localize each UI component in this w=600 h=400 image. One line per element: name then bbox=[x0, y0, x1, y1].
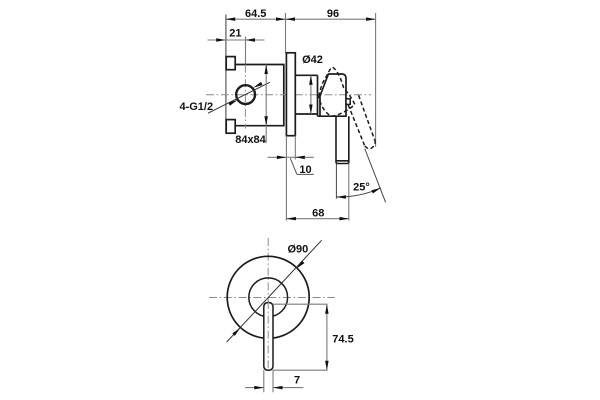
svg-text:10: 10 bbox=[299, 164, 311, 176]
dashed head (rotated) bbox=[319, 67, 355, 116]
inner circle bbox=[249, 278, 288, 317]
dashed lever (open 25°) bbox=[348, 105, 365, 146]
handle lever (down position) bbox=[336, 116, 349, 163]
extension line mid (x=285.5) bbox=[285, 13, 287, 53]
extension line right (x=375.6) bbox=[375, 13, 377, 147]
svg-text:4-G1/2: 4-G1/2 bbox=[179, 101, 213, 113]
extension line lever right bbox=[348, 164, 350, 221]
svg-text:21: 21 bbox=[229, 27, 241, 39]
dimension 21 bbox=[208, 39, 226, 41]
svg-text:96: 96 bbox=[327, 8, 339, 20]
svg-text:74.5: 74.5 bbox=[332, 334, 353, 346]
vertical centerline port bbox=[244, 65, 246, 129]
dimension 96 bbox=[286, 18, 376, 20]
label 4-G1/2 with leader bbox=[208, 82, 270, 113]
svg-text:Ø42: Ø42 bbox=[302, 54, 323, 66]
dimension 7 bbox=[263, 370, 265, 392]
label Ø90 with leader bbox=[227, 240, 322, 342]
svg-text:25°: 25° bbox=[353, 181, 370, 193]
wall flange plate bbox=[286, 53, 295, 136]
dimension 64.5 bbox=[226, 18, 286, 20]
horizontal centerline top view bbox=[206, 94, 371, 96]
angle 25° bbox=[335, 164, 337, 199]
vertical centerline front view bbox=[267, 238, 269, 368]
dimension 68 bbox=[286, 218, 349, 220]
dimension 74.5 bbox=[273, 303, 328, 305]
extension line left (x=225.9) bbox=[225, 15, 227, 134]
body square 84x84 bbox=[235, 65, 284, 126]
dimension 10 bbox=[268, 156, 287, 158]
svg-text:Ø90: Ø90 bbox=[288, 244, 309, 256]
set screw boss bbox=[346, 99, 350, 105]
extension line flange right bbox=[294, 136, 296, 160]
extension line 21 (x=245.5) bbox=[245, 37, 247, 65]
svg-text:7: 7 bbox=[294, 374, 300, 386]
bottom connection tab bbox=[226, 120, 235, 134]
svg-text:68: 68 bbox=[312, 207, 324, 219]
dimension 84x84 bbox=[265, 65, 267, 144]
handle head bbox=[318, 74, 347, 116]
escutcheon circle Ø90 bbox=[227, 256, 309, 338]
G1/2 port circle bbox=[236, 85, 255, 104]
svg-text:64.5: 64.5 bbox=[245, 8, 266, 20]
horizontal centerline front view bbox=[209, 297, 335, 299]
dimension Ø42 bbox=[310, 75, 312, 114]
cartridge cylinder bbox=[295, 74, 317, 76]
svg-text:84x84: 84x84 bbox=[235, 134, 266, 146]
top connection tab bbox=[226, 57, 235, 70]
vertical centerline through lever bbox=[267, 301, 269, 368]
lever front view bbox=[264, 303, 273, 371]
extension line flange left bbox=[285, 136, 287, 221]
